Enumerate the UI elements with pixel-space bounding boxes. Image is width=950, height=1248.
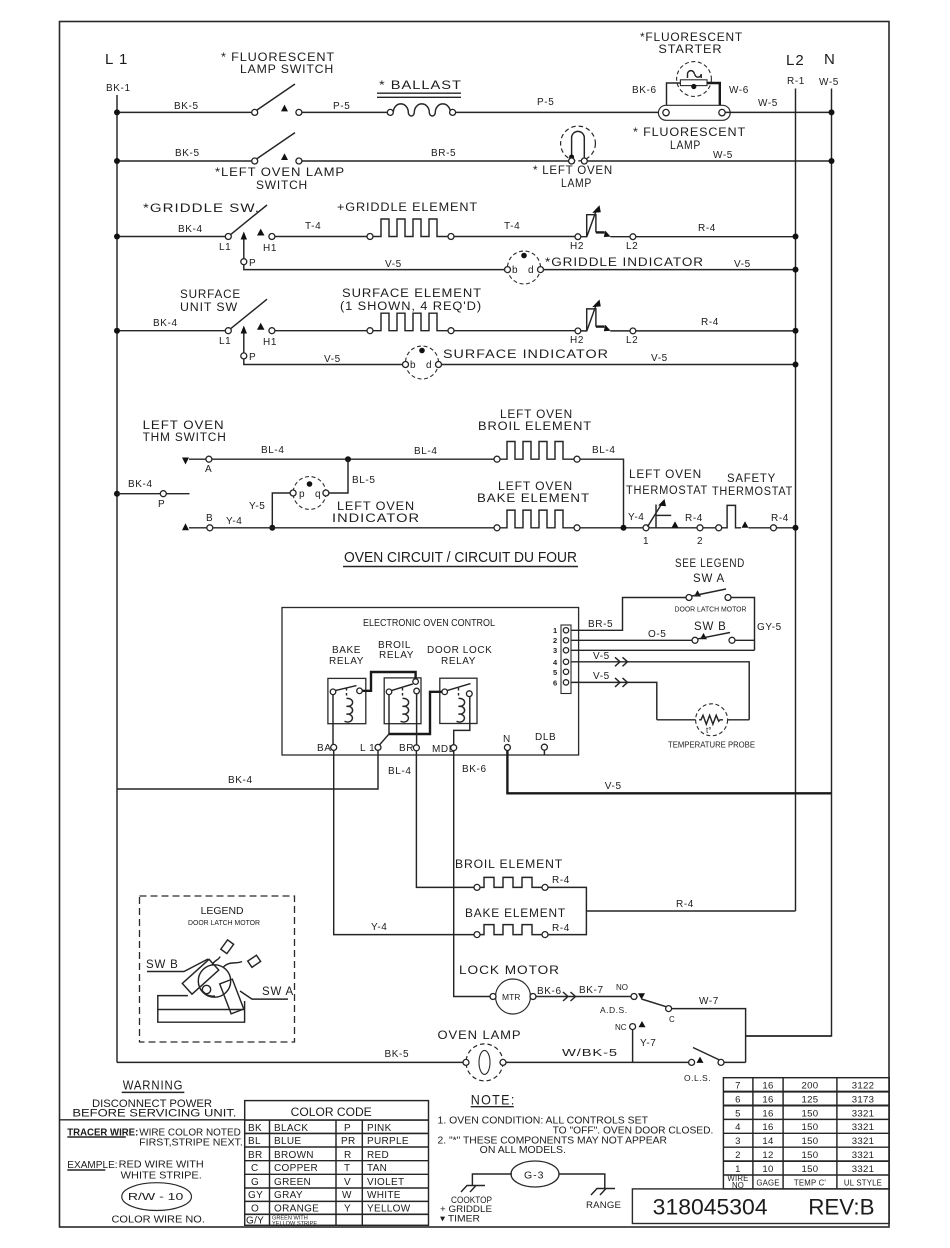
wire V-5 surface right: [442, 364, 796, 366]
svg-text:3173: 3173: [852, 1094, 875, 1105]
svg-text:A: A: [205, 464, 212, 475]
junction elements: [621, 525, 627, 531]
svg-text:LEFT OVEN: LEFT OVEN: [500, 409, 573, 421]
pin labels 1-6: [553, 626, 558, 688]
svg-text:W/BK-5: W/BK-5: [562, 1048, 618, 1059]
wire row3 R-4: [610, 236, 795, 238]
svg-text:BK-6: BK-6: [462, 764, 487, 775]
relay K2 broil: [384, 678, 421, 724]
svg-text:DOOR LOCK: DOOR LOCK: [427, 645, 492, 656]
junction A BL-5: [345, 456, 351, 462]
svg-text:BK-5: BK-5: [385, 1049, 410, 1060]
svg-text:150: 150: [802, 1150, 819, 1161]
svg-text:V-5: V-5: [593, 671, 610, 682]
oven lamp: [463, 1044, 506, 1081]
junction row1 L1: [114, 109, 120, 115]
svg-text:Y-4: Y-4: [226, 516, 242, 527]
left oven indicator: [290, 477, 329, 510]
svg-text:GREEN: GREEN: [274, 1177, 311, 1188]
svg-text:LOCK MOTOR: LOCK MOTOR: [459, 965, 560, 977]
fluorescent starter: [677, 62, 712, 97]
svg-text:L1: L1: [219, 242, 231, 253]
svg-text:V-5: V-5: [734, 259, 751, 270]
svg-text:PURPLE: PURPLE: [367, 1136, 409, 1147]
svg-text:THERMOSTAT: THERMOSTAT: [712, 486, 793, 498]
svg-text:BK-4: BK-4: [153, 318, 178, 329]
svg-text:6: 6: [735, 1094, 741, 1105]
svg-text:125: 125: [802, 1094, 819, 1105]
electronic oven control box: [282, 608, 579, 756]
svg-text:G: G: [251, 1177, 259, 1188]
svg-text:MTR: MTR: [502, 992, 520, 1002]
svg-text:OVEN LAMP: OVEN LAMP: [438, 1030, 522, 1042]
svg-text:L2: L2: [626, 241, 638, 252]
svg-text:1: 1: [553, 626, 557, 635]
terminal MDL: [451, 745, 457, 751]
svg-text:RELAY: RELAY: [441, 656, 476, 667]
svg-text:TEMP C': TEMP C': [794, 1179, 827, 1188]
blade B thm switch: [182, 523, 189, 530]
svg-text:N: N: [503, 734, 511, 745]
wire row5 R-4: [610, 330, 795, 332]
wire oven lamp row right: [506, 1061, 689, 1063]
svg-text:THERMOSTAT: THERMOSTAT: [626, 485, 708, 497]
switch S2 left oven lamp switch: [252, 133, 302, 164]
example ellipse: [122, 1183, 192, 1211]
terminal safety right: [771, 525, 777, 531]
svg-text:3: 3: [553, 646, 557, 655]
wire row2 BR-5: [302, 160, 569, 162]
svg-text:SURFACE INDICATOR: SURFACE INDICATOR: [443, 349, 609, 361]
svg-text:LEFT OVEN: LEFT OVEN: [498, 481, 573, 493]
svg-text:d: d: [528, 265, 534, 276]
svg-text:N: N: [824, 51, 836, 68]
wire row1 P-5: [302, 111, 387, 113]
connector chevrons motor: [563, 992, 576, 1001]
svg-text:W-7: W-7: [699, 996, 719, 1007]
svg-text:1: 1: [643, 536, 649, 547]
lock motor: [490, 979, 536, 1014]
legend box: [140, 896, 295, 1042]
switch SW B: [692, 633, 735, 644]
wire motor to ADS: [536, 996, 631, 998]
wire row1 to lamp: [456, 111, 663, 113]
svg-text:R-4: R-4: [552, 875, 570, 886]
svg-text:BL-4: BL-4: [261, 445, 285, 456]
griddle element: [367, 219, 454, 240]
svg-text:16: 16: [762, 1122, 773, 1133]
svg-text:BK-6: BK-6: [632, 85, 657, 96]
svg-text:ORANGE: ORANGE: [274, 1204, 319, 1215]
svg-text:WHITE STRIPE.: WHITE STRIPE.: [121, 1171, 202, 1182]
svg-text:T-4: T-4: [504, 221, 520, 232]
relay K3 door lock: [440, 678, 477, 723]
wire SW A lead: [240, 991, 288, 999]
svg-text:L 1: L 1: [360, 743, 375, 754]
svg-text:BK-7: BK-7: [579, 985, 604, 996]
svg-text:3321: 3321: [852, 1122, 875, 1133]
svg-text:BR-5: BR-5: [431, 148, 456, 159]
svg-text:W: W: [342, 1190, 352, 1201]
tracer underline: [67, 1136, 126, 1138]
svg-text:150: 150: [802, 1136, 819, 1147]
switch surface unit sw: [225, 299, 275, 334]
surface element: [367, 313, 454, 334]
svg-text:R-4: R-4: [552, 923, 570, 934]
wire BA to bake element Y-4: [334, 750, 474, 934]
wire pin2 O-5: [571, 639, 692, 641]
ground cooktop: [461, 1186, 485, 1193]
svg-text:MDL: MDL: [432, 744, 455, 755]
svg-text:LEFT OVEN: LEFT OVEN: [629, 469, 702, 481]
svg-text:R-1: R-1: [787, 76, 805, 87]
svg-text:UL STYLE: UL STYLE: [844, 1179, 882, 1188]
svg-text:BK-1: BK-1: [106, 83, 131, 94]
svg-text:L1: L1: [219, 336, 231, 347]
svg-text:G-3: G-3: [524, 1170, 545, 1182]
svg-text:14: 14: [762, 1136, 774, 1147]
wire row5 left BK-4: [117, 330, 225, 332]
svg-text:G/Y: G/Y: [246, 1215, 264, 1226]
svg-text:q: q: [315, 489, 321, 500]
svg-text:3321: 3321: [852, 1136, 875, 1147]
terminal P griddle: [241, 259, 247, 265]
blade triangle before 2: [672, 521, 679, 528]
svg-text:b: b: [512, 265, 518, 276]
svg-text:BL-5: BL-5: [352, 475, 376, 486]
left oven thermostat symbol: [648, 499, 672, 528]
color code cells col1 codes: [246, 1123, 264, 1227]
wire row B Y-4: [189, 527, 494, 529]
wire pin1 BR-5: [571, 598, 686, 631]
svg-text:COPPER: COPPER: [274, 1163, 318, 1174]
terminal P left oven: [160, 491, 166, 497]
wire DLB stub: [543, 750, 545, 755]
svg-text:PINK: PINK: [367, 1123, 392, 1134]
svg-text:TEMPERATURE PROBE: TEMPERATURE PROBE: [668, 740, 755, 750]
svg-text:LAMP: LAMP: [670, 138, 701, 152]
switch SW A: [686, 589, 731, 601]
svg-text:150: 150: [802, 1108, 819, 1119]
wire door lock common thick: [389, 692, 442, 734]
ballast coil: [387, 104, 455, 116]
surface indicator: [403, 346, 442, 379]
wire broil contact down: [388, 695, 390, 734]
terminal A: [206, 456, 212, 462]
ballast underline: [377, 92, 461, 94]
fluorescent lamp body: [658, 105, 730, 120]
svg-text:P: P: [249, 352, 256, 363]
bake element lower: [474, 925, 548, 938]
wire row2 left BK-5: [117, 160, 252, 162]
wire pin3: [571, 649, 755, 651]
svg-text:R-4: R-4: [698, 223, 716, 234]
junction row5 L1: [114, 328, 120, 334]
wire MDL to lock motor BK-6: [454, 751, 490, 997]
terminal L1: [375, 744, 381, 750]
svg-text:W-6: W-6: [729, 85, 749, 96]
svg-text:P-5: P-5: [333, 101, 350, 112]
svg-text:BAKE: BAKE: [332, 645, 361, 656]
ground G-3 ellipse: [511, 1161, 559, 1187]
svg-text:H1: H1: [263, 243, 277, 254]
terminal N: [504, 745, 510, 751]
svg-text:SW A: SW A: [262, 986, 294, 998]
wire broil to bake junction: [580, 459, 624, 528]
svg-text:ON ALL MODELS.: ON ALL MODELS.: [480, 1145, 566, 1156]
svg-text:V-5: V-5: [593, 651, 610, 662]
wire W-7: [672, 1009, 746, 1063]
svg-text:16: 16: [762, 1094, 773, 1105]
svg-text:BLUE: BLUE: [274, 1136, 301, 1147]
svg-text:SW A: SW A: [693, 573, 725, 585]
svg-text:* BALLAST: * BALLAST: [379, 78, 462, 92]
wire row2 right W-5: [587, 160, 831, 162]
svg-text:REV:B: REV:B: [808, 1195, 874, 1220]
title box: [632, 1189, 889, 1224]
wiper arrow griddle: [241, 232, 247, 240]
svg-text:d: d: [426, 360, 432, 371]
svg-text:3321: 3321: [852, 1150, 875, 1161]
temperature probe: [696, 704, 728, 736]
junction row2 N: [829, 158, 835, 164]
svg-text:R: R: [344, 1150, 352, 1161]
terminal NC: [630, 1024, 636, 1030]
svg-text:3: 3: [735, 1136, 741, 1147]
svg-text:H1: H1: [263, 337, 277, 348]
svg-text:O: O: [251, 1204, 259, 1215]
terminal BR: [413, 745, 419, 751]
svg-text:DLB: DLB: [535, 732, 556, 743]
wire SWA to GY5: [731, 598, 755, 651]
switch griddle sw: [225, 205, 275, 240]
wire N rail: [746, 89, 832, 1037]
svg-text:YELLOW: YELLOW: [367, 1204, 411, 1215]
svg-text:DOOR LATCH MOTOR: DOOR LATCH MOTOR: [188, 920, 260, 927]
svg-text:BROIL ELEMENT: BROIL ELEMENT: [478, 421, 592, 433]
svg-text:R/W - 10: R/W - 10: [128, 1191, 184, 1203]
svg-text:W-5: W-5: [713, 150, 733, 161]
wire pin4 V-5: [571, 662, 749, 720]
svg-text:7: 7: [735, 1081, 741, 1092]
color code cells col2 codes: [341, 1123, 356, 1215]
junction B Y-5: [269, 525, 275, 531]
svg-text:C: C: [251, 1163, 259, 1174]
wire bake right to R4 bus: [548, 911, 586, 935]
svg-text:* FLUORESCENT: * FLUORESCENT: [633, 125, 746, 139]
svg-text:5: 5: [553, 668, 557, 677]
svg-text:* LEFT OVEN: * LEFT OVEN: [533, 163, 613, 177]
connector chevrons pin4: [615, 657, 628, 666]
svg-text:▾ TIMER: ▾ TIMER: [440, 1214, 480, 1225]
svg-text:200: 200: [802, 1081, 819, 1092]
svg-text:3321: 3321: [852, 1164, 875, 1175]
svg-text:R-4: R-4: [771, 513, 789, 524]
svg-text:GRAY: GRAY: [274, 1190, 303, 1201]
wire V-5 griddle right: [544, 269, 796, 271]
junction row5 L2: [793, 328, 799, 334]
svg-text:WARNING: WARNING: [123, 1078, 184, 1093]
svg-text:GY-5: GY-5: [757, 622, 782, 633]
svg-text:P-5: P-5: [537, 97, 554, 108]
svg-text:Y: Y: [344, 1204, 351, 1215]
wire thermostat to 2: [649, 527, 697, 529]
svg-text:P: P: [344, 1123, 351, 1134]
svg-text:R-4: R-4: [685, 513, 703, 524]
svg-text:STARTER: STARTER: [658, 42, 722, 56]
svg-text:V-5: V-5: [385, 259, 402, 270]
svg-text:THM SWITCH: THM SWITCH: [143, 432, 227, 444]
svg-text:16: 16: [762, 1108, 773, 1119]
svg-text:NO: NO: [616, 983, 628, 992]
svg-text:SEE LEGEND: SEE LEGEND: [675, 558, 745, 570]
svg-text:H2: H2: [570, 335, 584, 346]
svg-text:GAGE: GAGE: [756, 1179, 779, 1188]
svg-text:L2: L2: [626, 335, 638, 346]
svg-text:RANGE: RANGE: [586, 1200, 621, 1211]
wire L1 rail: [116, 95, 118, 1062]
svg-text:*LEFT OVEN LAMP: *LEFT OVEN LAMP: [215, 165, 345, 179]
svg-text:Y-4: Y-4: [628, 512, 644, 523]
svg-text:p: p: [299, 489, 305, 500]
svg-text:BK-5: BK-5: [175, 148, 200, 159]
svg-text:BL-4: BL-4: [592, 445, 616, 456]
svg-text:RED WIRE WITH: RED WIRE WITH: [119, 1160, 204, 1171]
svg-text:O.L.S.: O.L.S.: [684, 1073, 711, 1083]
svg-text:BK-4: BK-4: [128, 479, 153, 490]
svg-text:RED: RED: [367, 1150, 389, 1161]
svg-text:BAKE ELEMENT: BAKE ELEMENT: [465, 908, 566, 920]
wire BR to broil element BL-4: [416, 751, 474, 888]
wire row5 to element: [275, 330, 367, 332]
svg-text:LEGEND: LEGEND: [201, 906, 244, 917]
svg-text:BR: BR: [399, 743, 414, 754]
wire G-3 left: [472, 1174, 512, 1186]
svg-text:BK-4: BK-4: [178, 224, 203, 235]
wire row3 to element: [275, 236, 367, 238]
wire BK-4 lower: [117, 750, 378, 789]
svg-text:t°: t°: [706, 726, 711, 735]
svg-text:COLOR CODE: COLOR CODE: [291, 1105, 372, 1119]
wire to N rail: [746, 1035, 832, 1037]
svg-text:150: 150: [802, 1122, 819, 1133]
safety thermostat symbol: [703, 505, 741, 527]
svg-text:WHITE: WHITE: [367, 1190, 401, 1201]
relay K1 bake: [328, 678, 366, 723]
svg-text:BA: BA: [317, 743, 332, 754]
svg-text:Y-4: Y-4: [371, 922, 387, 933]
junction row1 N: [829, 109, 835, 115]
wire SW B lead: [147, 959, 208, 972]
terminal 2: [697, 525, 703, 531]
svg-text:BK-5: BK-5: [174, 101, 199, 112]
blade NC triangle: [639, 1021, 646, 1027]
svg-text:3321: 3321: [852, 1108, 875, 1119]
terminal 1 left oven thermostat: [643, 525, 649, 531]
svg-text:2: 2: [735, 1150, 741, 1161]
legend motor drawing: [182, 940, 260, 1014]
svg-text:150: 150: [802, 1164, 819, 1175]
svg-text:BL: BL: [248, 1136, 261, 1147]
wire row1 right W-5: [725, 111, 831, 113]
svg-text:BAKE ELEMENT: BAKE ELEMENT: [477, 493, 590, 505]
left oven broil element: [494, 442, 580, 463]
svg-text:BK-6: BK-6: [537, 986, 562, 997]
svg-text:SAFETY: SAFETY: [727, 473, 776, 485]
svg-text:L 1: L 1: [105, 51, 128, 68]
svg-text:(1 SHOWN, 4 REQ'D): (1 SHOWN, 4 REQ'D): [340, 301, 482, 313]
junction row2 L1: [114, 158, 120, 164]
wire diag to L1: [380, 734, 390, 745]
svg-text:V-5: V-5: [651, 353, 668, 364]
junction P L1: [114, 491, 120, 497]
switch ADS: [631, 993, 672, 1011]
svg-text:Y-7: Y-7: [640, 1038, 656, 1049]
broil element lower: [474, 877, 548, 890]
connector J1: [561, 625, 571, 694]
svg-text:16: 16: [762, 1081, 773, 1092]
svg-text:SWITCH: SWITCH: [256, 178, 308, 192]
svg-text:NOTE:: NOTE:: [471, 1091, 516, 1107]
wire Y-7: [632, 1030, 634, 1063]
wire row3 to H2: [454, 236, 575, 238]
terminal DLB: [541, 744, 547, 750]
svg-text:OVEN CIRCUIT / CIRCUIT DU FOUR: OVEN CIRCUIT / CIRCUIT DU FOUR: [344, 550, 577, 566]
svg-text:P: P: [249, 258, 256, 269]
blade triangle safety: [742, 521, 749, 528]
junction row3 L2: [793, 234, 799, 240]
svg-text:COLOR WIRE NO.: COLOR WIRE NO.: [112, 1214, 205, 1225]
wire row5 to H2: [454, 330, 575, 332]
left oven bake element: [494, 510, 580, 531]
svg-text:FIRST,STRIPE NEXT.: FIRST,STRIPE NEXT.: [139, 1138, 243, 1149]
label green with yellow stripe: [272, 1216, 317, 1228]
svg-text:L2: L2: [786, 52, 805, 69]
wire starter right lead: [707, 83, 720, 105]
svg-text:+GRIDDLE ELEMENT: +GRIDDLE ELEMENT: [337, 202, 478, 214]
switch OLS: [689, 1048, 724, 1066]
svg-text:LEFT OVEN: LEFT OVEN: [143, 420, 225, 432]
example underline: [67, 1169, 105, 1171]
svg-text:12: 12: [762, 1150, 773, 1161]
svg-text:4: 4: [735, 1122, 741, 1133]
terminal safety left: [716, 525, 722, 531]
svg-text:b: b: [410, 360, 416, 371]
junction V5 griddle L2: [793, 267, 799, 273]
wire P branch surface: [244, 333, 403, 365]
svg-text:GY: GY: [248, 1190, 263, 1201]
warning underline: [122, 1091, 185, 1093]
wire bake contact to BA: [332, 695, 334, 745]
svg-text:C: C: [669, 1015, 675, 1024]
wire oven lamp row left: [117, 1061, 463, 1063]
wire BL-5 branch: [290, 459, 348, 493]
svg-text:V-5: V-5: [605, 781, 622, 792]
svg-text:R-4: R-4: [701, 317, 719, 328]
svg-text:T-4: T-4: [305, 221, 321, 232]
svg-text:BROIL ELEMENT: BROIL ELEMENT: [455, 859, 563, 871]
svg-text:SURFACE ELEMENT: SURFACE ELEMENT: [342, 288, 482, 300]
svg-text:UNIT SW: UNIT SW: [180, 302, 238, 314]
wire safety to R-4: [749, 527, 796, 529]
svg-text:LEFT OVEN: LEFT OVEN: [337, 501, 415, 513]
wire row3 left BK-4: [117, 236, 225, 238]
wire door NO to MDL: [454, 697, 470, 745]
terminal BA: [331, 744, 337, 750]
wire G-3 right: [559, 1174, 605, 1189]
svg-text:BL-4: BL-4: [388, 766, 412, 777]
note underline: [471, 1106, 514, 1108]
